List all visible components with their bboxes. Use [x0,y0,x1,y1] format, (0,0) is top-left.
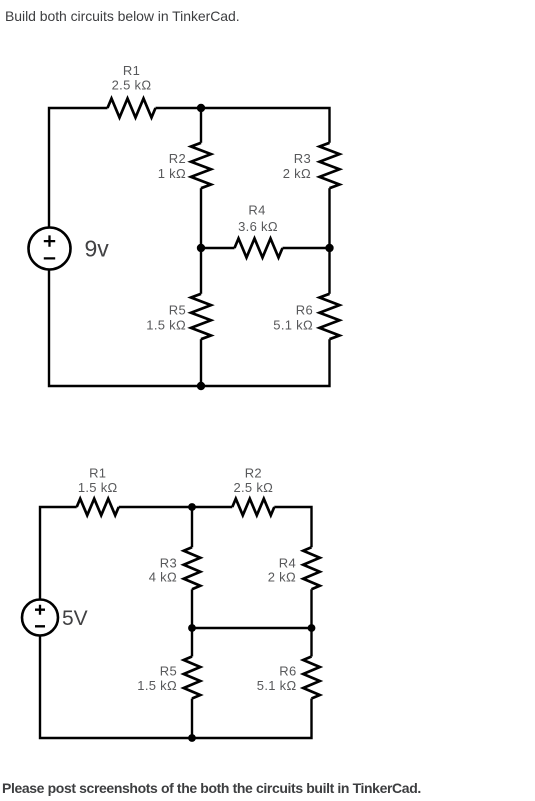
wire: right column bottom + bottom rail + left vertical lower [49,269,330,386]
wire: middle column between R2 and mid node [200,188,202,248]
wire: top segment between R1 and R2 [119,506,233,508]
wire: middle column top (node A to R2) [200,108,202,143]
svg-text:9v: 9v [85,236,110,262]
wire: top-right segment down to R4 [274,507,311,547]
resistor R5 1.5k vertical [191,294,211,339]
instruction text top [5,8,240,24]
resistor R3 2k vertical [320,143,340,188]
wire: R4 right lead [283,247,330,249]
resistor R6 5.1k vertical [320,294,340,339]
svg-text:2.5 kΩ: 2.5 kΩ [112,78,152,93]
svg-text:R4: R4 [248,203,265,218]
svg-text:R6: R6 [296,303,313,318]
svg-text:1.5 kΩ: 1.5 kΩ [78,480,118,495]
svg-text:R1: R1 [89,466,106,481]
wire: right column from mid node to R6 [328,248,330,294]
node: junction dot top middle [188,503,196,511]
node: junction dot mid-right [308,624,316,632]
wire: right column bottom + bottom rail + left vertical lower [40,635,312,738]
wire: right column from mid node to R6 [310,628,312,657]
svg-text:2.5 kΩ: 2.5 kΩ [233,480,273,495]
svg-text:1 kΩ: 1 kΩ [158,166,186,181]
resistor R1 2.5k horizontal [108,99,156,118]
node: junction dot mid-right of R4 [325,244,333,252]
wire: right column between R4 and mid node [310,589,312,628]
svg-text:R6: R6 [279,664,296,679]
svg-text:5.1 kΩ: 5.1 kΩ [257,678,297,693]
resistor R2 2.5k horizontal [232,499,274,516]
svg-text:R3: R3 [294,151,311,166]
wire: middle column top down to R3 [191,507,193,547]
resistor R6 5.1k vertical [303,657,320,699]
node: junction dot mid-left [188,624,196,632]
svg-text:R2: R2 [169,151,186,166]
svg-text:R5: R5 [169,303,186,318]
resistor R2 1k vertical [191,143,211,188]
wire: middle horizontal rail [192,627,312,629]
svg-text:R3: R3 [160,556,177,571]
wire: middle column from mid node to R5 [191,628,193,657]
instruction text bottom [2,780,421,796]
wire: middle column from mid node to R5 [200,248,202,294]
resistor R5 1.5k vertical [184,657,201,699]
wire: R4 left lead [201,247,235,249]
resistor R3 4k vertical [184,547,201,589]
svg-text:R2: R2 [245,466,262,481]
svg-text:R4: R4 [279,556,296,571]
wire: middle column bottom [191,699,193,739]
resistor R1 1.5k horizontal [77,499,119,516]
wire: top-left segment + left vertical upper [40,507,77,600]
resistor R4 3.6k horizontal [235,239,283,258]
svg-text:R1: R1 [123,63,140,78]
wire: top-left segment + left vertical upper [49,108,108,228]
voltage source V2 5V [22,600,58,636]
svg-text:1.5 kΩ: 1.5 kΩ [146,318,186,333]
node: junction dot bottom middle [188,734,196,742]
svg-text:5.1 kΩ: 5.1 kΩ [273,318,313,333]
svg-text:1.5 kΩ: 1.5 kΩ [137,678,177,693]
svg-text:5V: 5V [62,607,88,630]
svg-text:2 kΩ: 2 kΩ [268,570,296,585]
resistor R4 2k vertical [303,547,320,589]
voltage source V1 9v [29,228,71,270]
node: junction dot mid-left of R4 [197,244,205,252]
wire: middle column bottom [200,339,202,386]
wire: top segment from R1 to right column, down to R3 [156,108,330,143]
svg-text:R5: R5 [160,664,177,679]
svg-text:4 kΩ: 4 kΩ [149,570,177,585]
wire: middle column between R3 and mid node [191,589,193,628]
svg-text:3.6 kΩ: 3.6 kΩ [238,219,278,234]
svg-text:2 kΩ: 2 kΩ [283,166,311,181]
node: junction dot top middle [197,104,205,112]
wire: right column between R3 and mid node [328,188,330,248]
node: junction dot bottom middle [197,382,205,390]
